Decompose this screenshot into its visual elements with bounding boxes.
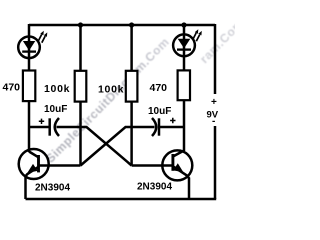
resistor R4 470 <box>178 70 190 100</box>
wire: branch 1 vertical (R1 bottom to Q1 collector) <box>28 101 31 152</box>
svg-text:470: 470 <box>150 82 168 94</box>
svg-text:100k: 100k <box>44 83 70 95</box>
resistor R1 470 <box>23 71 35 102</box>
svg-text:100k: 100k <box>98 84 124 96</box>
wire: C1 right plate to Q2 base node (diagonal cross-coupling) <box>57 127 132 166</box>
transistor Q1 2N3904 <box>19 149 49 199</box>
wire: Q1 base horizontal <box>39 164 81 167</box>
resistor R2 100k <box>75 71 87 102</box>
watermark text run B <box>197 16 246 66</box>
capacitor C1 polarity + <box>39 119 44 124</box>
svg-text:2N3904: 2N3904 <box>137 182 172 193</box>
svg-text:2N3904: 2N3904 <box>35 183 70 194</box>
wire: Q2 collector to C2 right plate <box>159 126 184 129</box>
wire: bottom ground rail <box>26 198 217 201</box>
svg-text:470: 470 <box>3 82 21 94</box>
node: junction dot branch R3 on +V rail <box>129 22 134 27</box>
wire: branch 1 vertical (rail to R1 top through LED1) <box>28 24 31 71</box>
watermark text run A <box>43 35 172 166</box>
wire: C2 left plate to Q1 base node (diagonal cross-coupling) <box>81 127 155 166</box>
svg-text:-: - <box>212 116 215 127</box>
wire: branch 4 vertical (R4 bottom to Q2 collector) <box>183 100 186 151</box>
LED D2 <box>173 29 202 56</box>
node: junction dot branch LED2 on +V rail <box>181 22 186 27</box>
LED D1 <box>18 31 47 58</box>
wire: branch 2 vertical (rail to R2 top) <box>79 25 82 71</box>
node: junction dot branch R2 on +V rail <box>78 22 83 27</box>
wire: branch 2 vertical (R2 bottom to Q1 base node) <box>79 102 82 166</box>
wire: branch 3 vertical (rail to R3 top) <box>130 25 133 71</box>
wire: right rail upper segment <box>214 24 217 94</box>
wire: branch 4 vertical (rail to R4 top through LED2) <box>183 24 186 71</box>
svg-text:+: + <box>211 97 217 108</box>
resistor R3 100k <box>126 71 138 102</box>
capacitor C2 polarity + <box>170 118 175 123</box>
svg-text:10uF: 10uF <box>148 106 171 117</box>
wire: branch 3 vertical (R3 bottom to Q2 base node) <box>130 102 133 166</box>
capacitor C2 10uF <box>152 118 159 136</box>
wire: top +V rail <box>29 24 215 27</box>
transistor Q2 2N3904 <box>162 150 192 199</box>
wire: Q1 collector to C1 left plate <box>29 126 50 129</box>
svg-text:10uF: 10uF <box>44 104 67 115</box>
wire: right rail lower segment <box>214 126 217 199</box>
wire: Q2 base horizontal <box>132 164 173 167</box>
capacitor C1 10uF <box>50 118 59 136</box>
